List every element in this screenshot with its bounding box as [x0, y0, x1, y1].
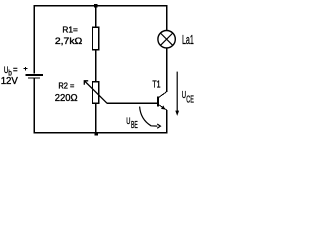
wire right rail bottom (emitter) — [166, 110, 168, 134]
transistor T1 — [158, 92, 167, 111]
potentiometer wiper diagonal arrow — [84, 81, 107, 104]
svg-text:La1: La1 — [182, 32, 194, 47]
wire R1 top lead — [95, 6, 97, 28]
wire bottom rail — [34, 132, 168, 134]
voltage arrow UCE — [175, 72, 179, 116]
svg-text:BE: BE — [131, 120, 138, 131]
wire top rail — [34, 5, 168, 7]
voltage arc arrow UBE — [140, 107, 161, 129]
svg-text:220Ω: 220Ω — [55, 93, 78, 104]
wire R2 bottom lead — [95, 103, 97, 133]
collector diagonal — [158, 92, 167, 98]
base bar — [157, 96, 159, 106]
svg-text:CE: CE — [186, 94, 194, 105]
wire left rail upper — [33, 5, 35, 74]
emitter diagonal — [158, 104, 167, 110]
wire left rail lower — [33, 78, 35, 133]
svg-text:U: U — [126, 116, 130, 126]
node junction dot top (R1 tap) — [94, 4, 98, 8]
wire base (R2 wiper to T1) — [107, 102, 157, 104]
wire right rail top — [166, 5, 168, 31]
svg-text:12V: 12V — [1, 76, 18, 87]
resistor R2 body (potentiometer) — [93, 82, 99, 103]
battery Ub plates — [25, 75, 43, 78]
svg-text:R2 =: R2 = — [58, 81, 74, 91]
lamp La1 — [158, 31, 175, 48]
label UBE — [126, 116, 138, 131]
svg-text:=: = — [13, 65, 18, 75]
wire right rail middle (lamp to collector) — [166, 48, 168, 92]
svg-text:T1: T1 — [152, 80, 160, 91]
svg-text:2,7kΩ: 2,7kΩ — [55, 36, 83, 46]
label Ub = — [4, 65, 18, 78]
resistor R1 body — [93, 27, 99, 49]
label UCE — [182, 90, 194, 105]
battery plus polarity mark — [24, 67, 28, 71]
node junction dot bottom — [94, 132, 98, 136]
svg-text:R1=: R1= — [62, 26, 78, 35]
emitter arrowhead — [161, 105, 165, 109]
wire between R1 and R2 — [95, 50, 97, 82]
